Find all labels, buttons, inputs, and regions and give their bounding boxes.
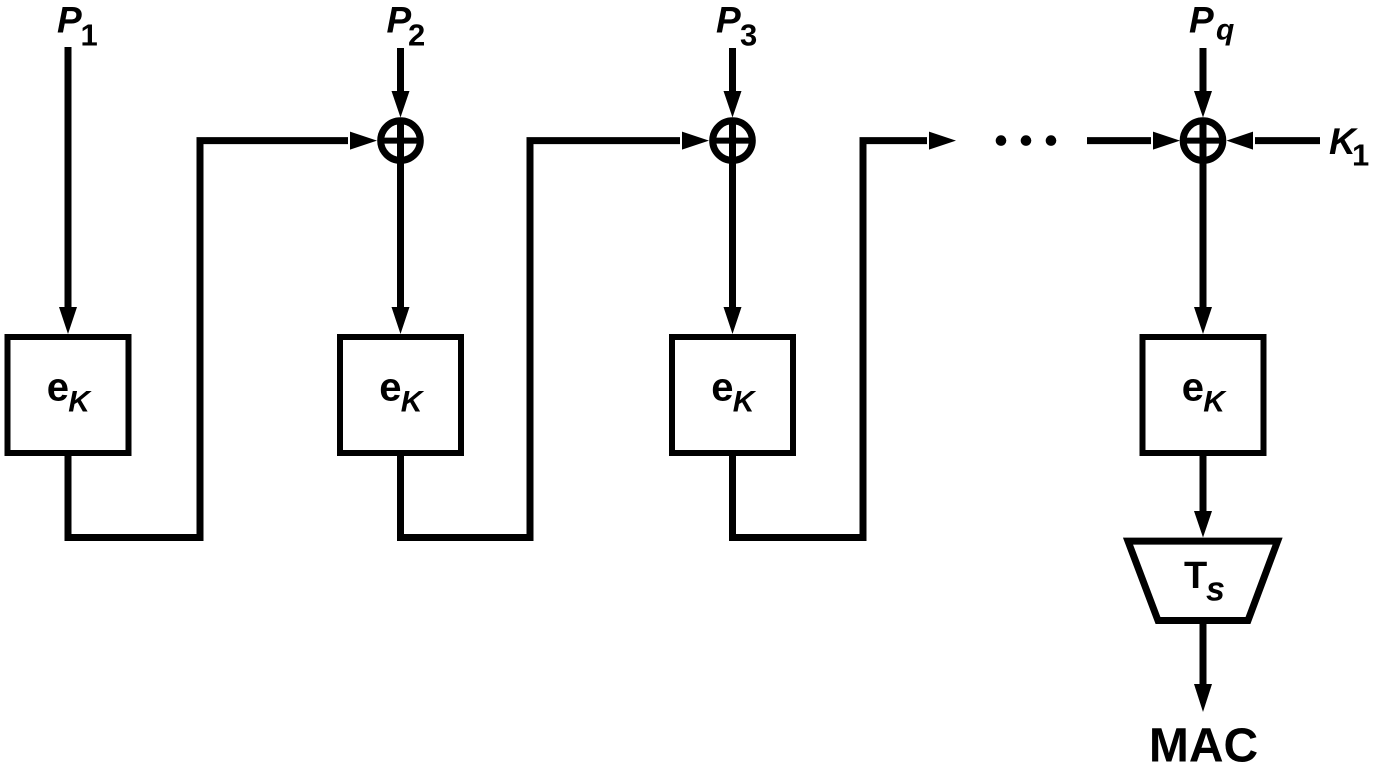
- wire X2 to eK2: [392, 118, 410, 334]
- label K1: [1329, 121, 1369, 173]
- wire X4 to eK4: [1194, 118, 1212, 334]
- svg-text:P: P: [57, 0, 82, 41]
- svg-text:K: K: [733, 386, 757, 419]
- svg-text:P: P: [716, 0, 741, 41]
- xor X4: [1181, 121, 1226, 161]
- svg-text:P: P: [1189, 0, 1214, 41]
- label P2: [387, 0, 426, 53]
- wire chain eK2 to X3: [401, 132, 710, 538]
- wire P3 to X3: [724, 48, 742, 118]
- xor X2: [378, 121, 423, 161]
- trapezoid Ts: [1128, 541, 1278, 620]
- label Pq: [1189, 0, 1234, 47]
- svg-text:s: s: [1206, 571, 1225, 609]
- label MAC: [1149, 720, 1258, 770]
- svg-text:q: q: [1216, 14, 1234, 47]
- wire P2 to X2: [392, 48, 410, 118]
- block eK4: [1143, 337, 1264, 453]
- svg-text:T: T: [1184, 555, 1207, 597]
- svg-text:e: e: [1182, 366, 1204, 410]
- svg-text:3: 3: [740, 18, 757, 53]
- wire P1 to eK1: [59, 47, 77, 334]
- svg-text:K: K: [68, 386, 92, 419]
- wire eK4 to Ts: [1194, 453, 1212, 538]
- wire dots to X4: [1087, 132, 1180, 150]
- wire K1 to X4: [1227, 132, 1321, 150]
- svg-text:e: e: [711, 366, 733, 410]
- svg-text:2: 2: [408, 18, 425, 53]
- block eK2: [340, 337, 461, 453]
- dots ellipsis: [996, 135, 1057, 146]
- svg-text:K: K: [1203, 386, 1227, 419]
- svg-text:K: K: [401, 386, 425, 419]
- svg-text:e: e: [47, 366, 69, 410]
- wire Ts to MAC output: [1194, 621, 1212, 712]
- block eK3: [672, 337, 793, 453]
- svg-text:MAC: MAC: [1149, 720, 1258, 770]
- svg-text:1: 1: [81, 18, 98, 53]
- label P3: [716, 0, 757, 53]
- wire Pq to X4: [1194, 48, 1212, 118]
- label P1: [57, 0, 98, 53]
- svg-text:e: e: [379, 366, 401, 410]
- xor X3: [710, 121, 755, 161]
- wire chain eK1 to X2: [68, 132, 377, 538]
- svg-text:1: 1: [1352, 138, 1369, 173]
- block eK1: [8, 337, 129, 453]
- wire X3 to eK3: [724, 118, 742, 334]
- wire chain eK3 to dots: [733, 132, 957, 538]
